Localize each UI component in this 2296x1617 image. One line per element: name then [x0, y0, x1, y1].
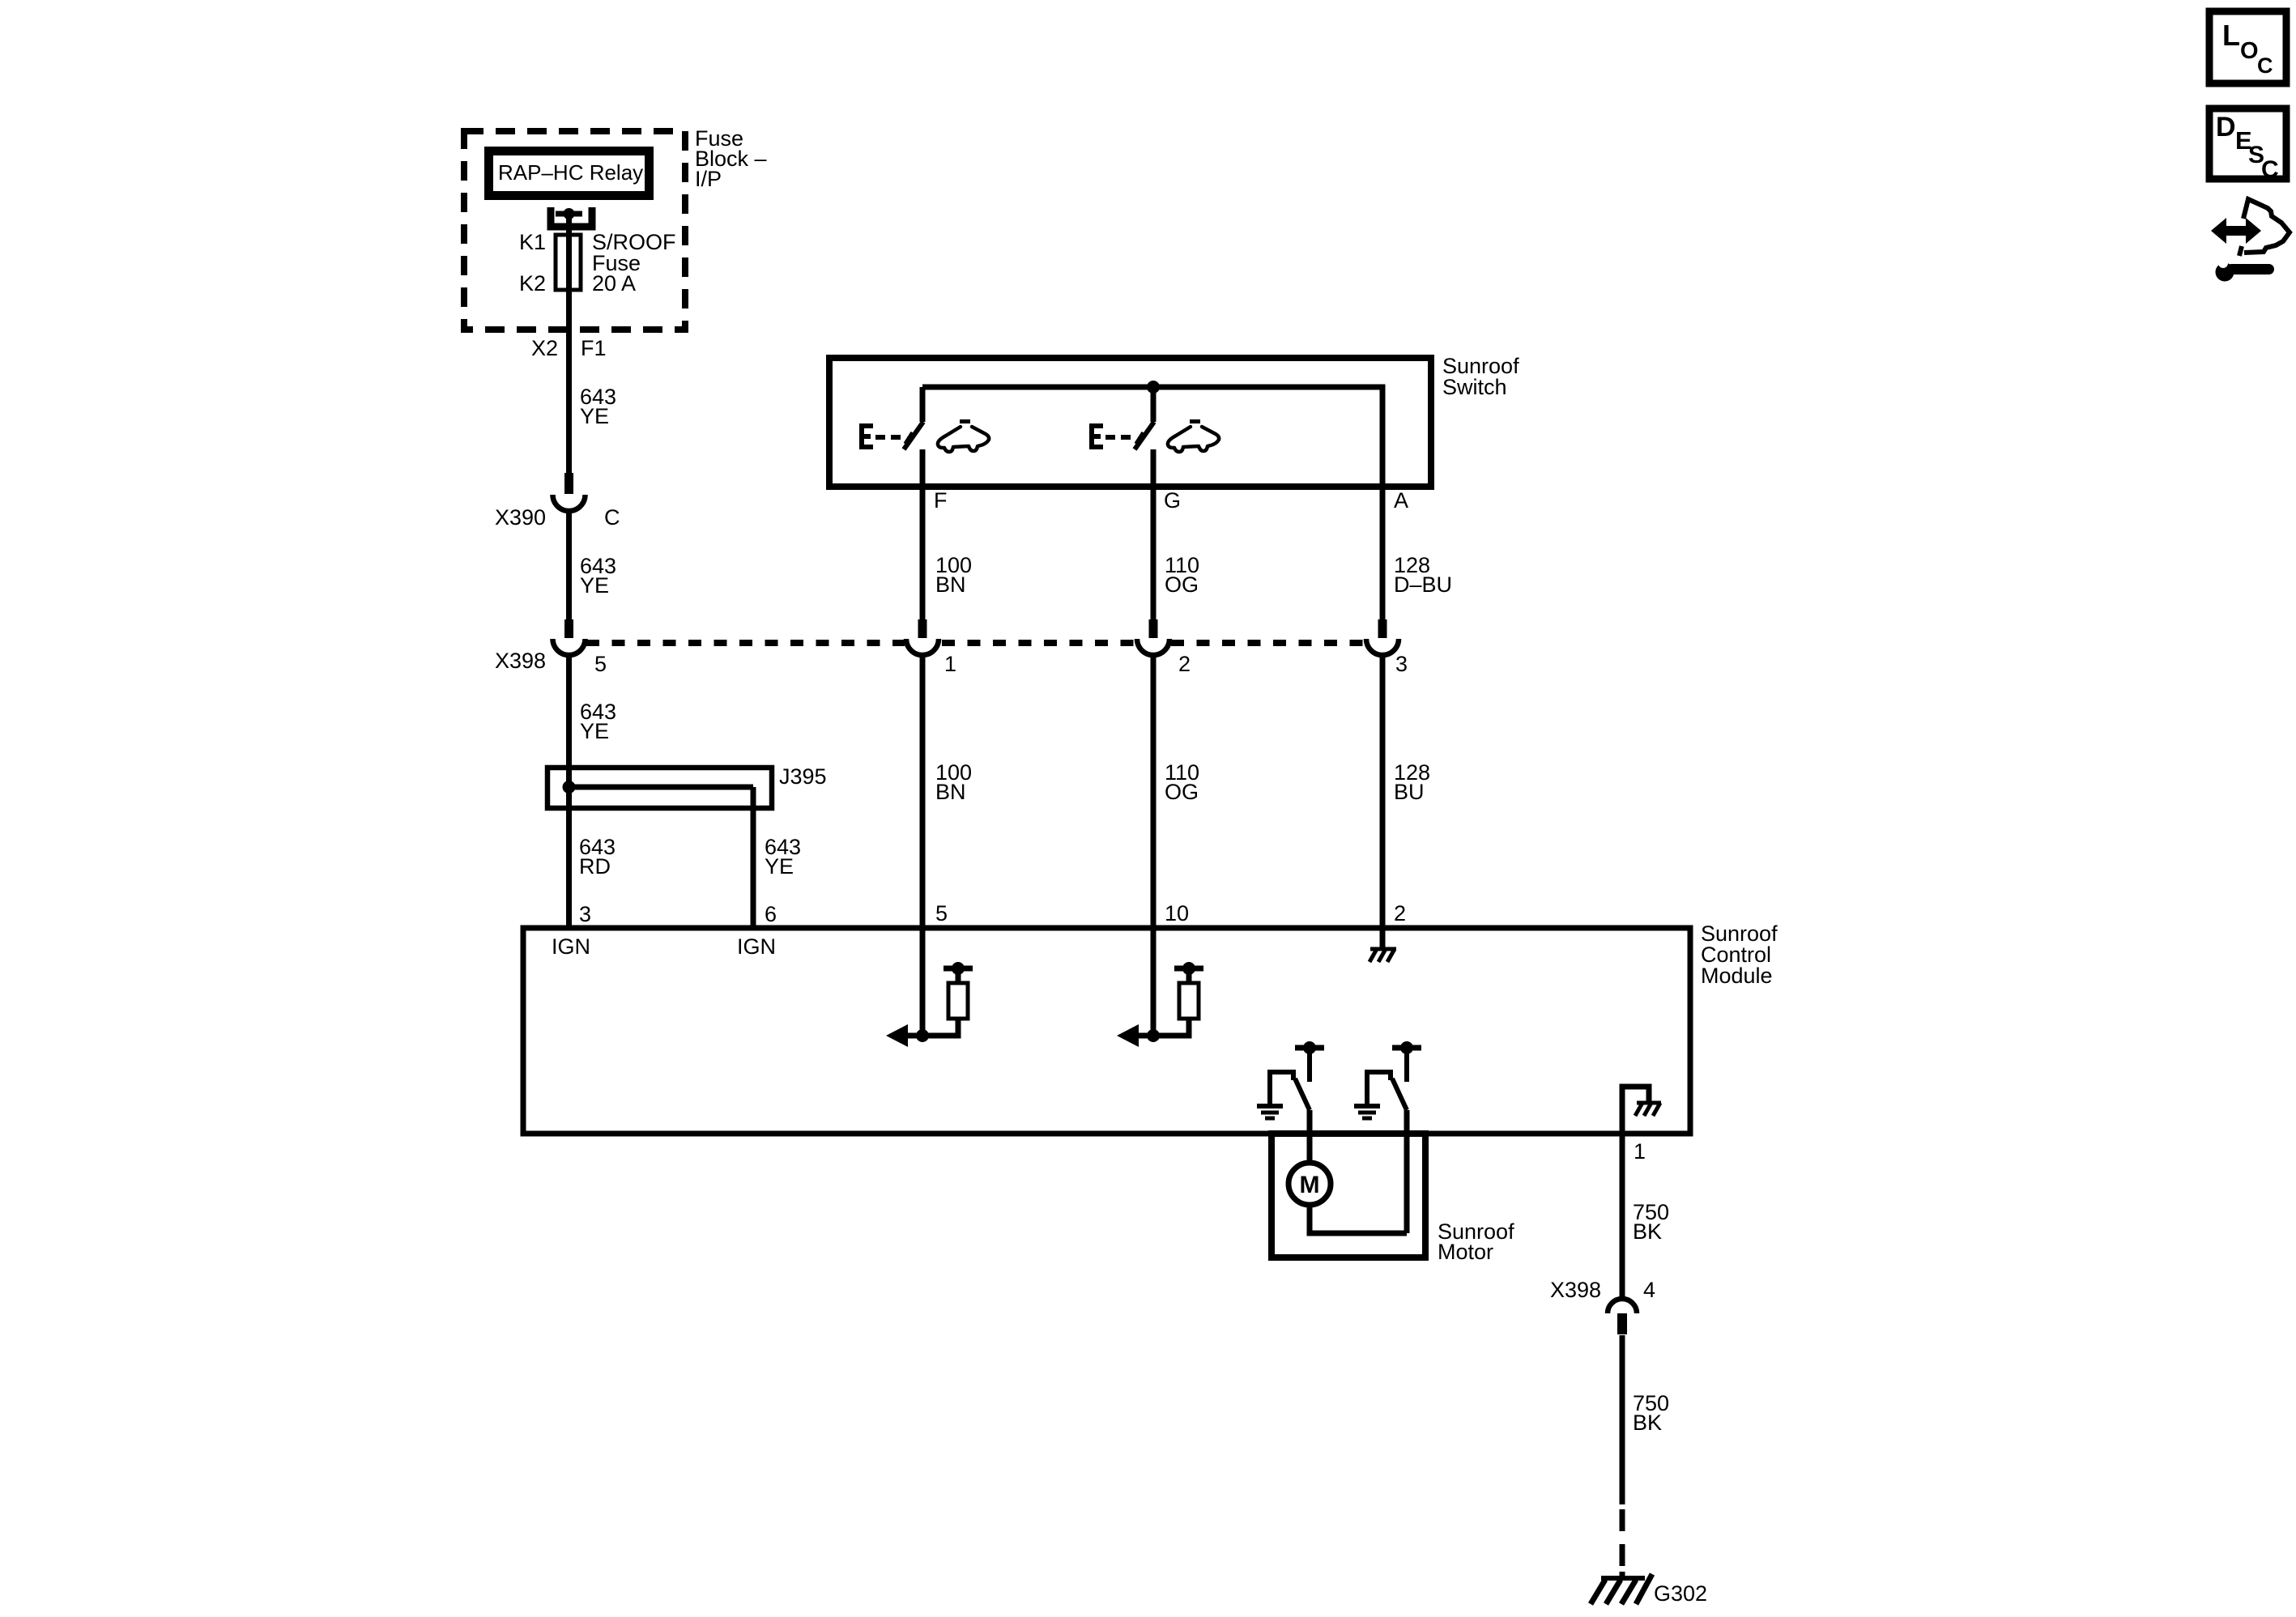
connector X398 pin 2	[1137, 619, 1169, 655]
svg-text:K2: K2	[519, 271, 546, 296]
svg-text:D: D	[2216, 112, 2236, 143]
signal arrow pin 10	[1136, 1033, 1153, 1039]
svg-text:2: 2	[1394, 901, 1406, 926]
switch S2 actuator E	[1089, 423, 1131, 449]
svg-text:C: C	[2257, 53, 2273, 78]
svg-text:RD: RD	[579, 854, 611, 879]
wire module pin 1 down	[1620, 1134, 1625, 1299]
svg-text:O: O	[2240, 38, 2259, 64]
svg-text:Module: Module	[1701, 964, 1773, 988]
module internal ground near pin 1	[1622, 1087, 1649, 1134]
relay driver switch 2 (motor -)	[1354, 1041, 1421, 1233]
pull-up resistor pin 5	[922, 962, 973, 1036]
connector X398 pin 4	[1608, 1299, 1637, 1334]
wire relay to X390	[566, 214, 572, 473]
supply T-bar s2	[1392, 1045, 1421, 1051]
connector X390 pin C	[553, 473, 586, 511]
relay K RAP-HC box	[484, 147, 654, 200]
svg-text:BN: BN	[935, 780, 966, 804]
svg-text:1: 1	[944, 652, 956, 676]
svg-text:G: G	[1164, 488, 1181, 513]
earth ground s2	[1354, 1104, 1380, 1108]
wire X398-1 to module pin 5	[920, 653, 926, 928]
module input pin 5: wire	[920, 928, 926, 1036]
service icon wrench	[2216, 258, 2275, 282]
svg-text:5: 5	[594, 652, 607, 676]
svg-text:20 A: 20 A	[592, 271, 636, 296]
junction dot switch bar	[1147, 381, 1160, 394]
svg-text:X2: X2	[531, 336, 558, 360]
svg-text:6: 6	[765, 902, 777, 926]
earth ground s1	[1257, 1104, 1283, 1108]
desc icon box	[2209, 109, 2286, 179]
svg-text:YE: YE	[580, 573, 609, 598]
svg-text:IGN: IGN	[552, 934, 590, 959]
svg-text:L: L	[2222, 19, 2240, 52]
svg-text:X390: X390	[495, 505, 546, 530]
svg-text:1: 1	[1634, 1139, 1646, 1164]
connector X398 pin 5	[553, 619, 586, 655]
ground contact hook s1	[1270, 1072, 1293, 1106]
wire switch G to X398-2	[1151, 449, 1157, 619]
svg-text:I/P: I/P	[695, 167, 722, 191]
svg-text:BK: BK	[1633, 1411, 1662, 1435]
icon car sunroof tilt (left)	[938, 419, 989, 452]
svg-text:IGN: IGN	[737, 934, 776, 959]
blade s1	[1295, 1079, 1310, 1110]
sunroof switch box	[829, 358, 1431, 487]
motor M	[1289, 1163, 1331, 1205]
fuse block label	[695, 126, 767, 191]
sunroof motor box	[1272, 1134, 1425, 1257]
switch S1 actuator E	[859, 423, 901, 449]
switch S2 open/close (pin G)	[1135, 387, 1154, 449]
wire X390 to X398	[566, 509, 572, 619]
wire switch A to X398-3	[1380, 487, 1386, 619]
fuse S/ROOF 20A	[556, 235, 581, 290]
svg-text:D–BU: D–BU	[1394, 572, 1452, 597]
relay contact T-bar	[556, 211, 582, 217]
relay driver switch 1 (motor +)	[1257, 1041, 1324, 1163]
service icon double arrow	[2211, 218, 2261, 244]
svg-text:Switch: Switch	[1442, 375, 1507, 399]
connector X398 pin 3	[1366, 619, 1399, 655]
junction dot pin10 input	[1147, 1029, 1160, 1042]
pole wire s2	[1404, 1110, 1410, 1233]
pole wire s1	[1307, 1110, 1313, 1163]
fuse block I/P dashed box	[464, 131, 685, 330]
junction dot pin5 input	[916, 1029, 929, 1042]
splice pack J395	[547, 768, 772, 808]
svg-text:C: C	[604, 505, 620, 530]
dashed harness line X398	[586, 640, 1363, 646]
wire X398-4 to ground	[1620, 1335, 1625, 1504]
svg-text:BN: BN	[935, 572, 966, 597]
switch S1 open/close (pin F)	[904, 387, 923, 449]
blade s2	[1392, 1079, 1407, 1110]
chassis ground pin 2	[1370, 949, 1396, 962]
relay pin bracket	[551, 207, 592, 227]
ground G302	[1591, 1572, 1652, 1604]
junction dot relay	[564, 208, 575, 219]
svg-text:C: C	[2261, 156, 2279, 183]
svg-text:F: F	[934, 488, 948, 513]
junction dot J395	[563, 781, 576, 794]
signal arrow pin 5	[905, 1033, 922, 1039]
wire J395 to module pin 6	[751, 787, 756, 928]
svg-text:YE: YE	[580, 404, 609, 428]
svg-text:A: A	[1394, 488, 1408, 513]
svg-text:4: 4	[1643, 1278, 1655, 1302]
svg-text:RAP–HC Relay: RAP–HC Relay	[498, 160, 643, 185]
svg-text:3: 3	[1395, 652, 1408, 676]
label S/ROOF Fuse 20A	[592, 230, 676, 296]
svg-text:Motor: Motor	[1438, 1240, 1493, 1264]
svg-text:X398: X398	[1550, 1278, 1601, 1302]
wire X398-5 to J395 and module pin 3	[566, 653, 572, 928]
supply T-bar s1	[1295, 1045, 1324, 1051]
module input pin 10: wire	[1151, 928, 1157, 1036]
svg-text:YE: YE	[580, 719, 609, 743]
module pin 2 internal ground wire	[1380, 928, 1386, 949]
svg-text:10: 10	[1165, 901, 1189, 926]
svg-text:G302: G302	[1654, 1581, 1707, 1606]
wire X398-3 to module pin 2	[1380, 653, 1386, 928]
wire X398-2 to module pin 10	[1151, 653, 1157, 928]
svg-text:BU: BU	[1394, 780, 1425, 804]
svg-text:2: 2	[1178, 652, 1191, 676]
svg-text:YE: YE	[765, 854, 794, 879]
wire switch common bar	[922, 387, 1382, 487]
svg-text:5: 5	[935, 901, 948, 926]
pull-up resistor pin 10	[1153, 962, 1203, 1036]
service icon outline arrow	[2243, 199, 2290, 253]
loc icon box	[2209, 11, 2286, 83]
svg-text:X398: X398	[495, 649, 546, 673]
connector X398 pin 1	[906, 619, 939, 655]
svg-text:F1: F1	[581, 336, 607, 360]
svg-text:OG: OG	[1165, 572, 1199, 597]
svg-text:OG: OG	[1165, 780, 1199, 804]
svg-text:J395: J395	[779, 764, 827, 789]
wire switch F to X398-1	[920, 449, 926, 619]
svg-text:3: 3	[579, 902, 591, 926]
wire dashed to G302	[1620, 1509, 1625, 1566]
icon car sunroof slide (right)	[1168, 419, 1219, 452]
svg-text:K1: K1	[519, 230, 546, 254]
ground contact hook s2	[1367, 1072, 1391, 1106]
svg-text:BK: BK	[1633, 1219, 1662, 1244]
wire J395 splice bar	[569, 785, 754, 790]
wire motor loop	[1310, 1205, 1407, 1233]
svg-text:M: M	[1300, 1172, 1320, 1198]
sunroof control module box	[523, 928, 1690, 1134]
